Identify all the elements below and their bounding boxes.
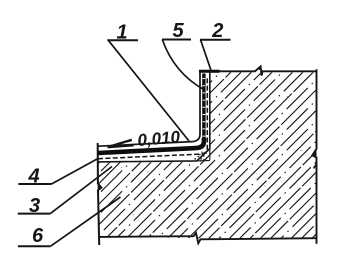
concrete surface: floor top line, fillet chamfer, wall face xyxy=(98,72,210,162)
right edge with break mark xyxy=(312,69,316,244)
membrane rail2 (thick main membrane) xyxy=(98,138,204,153)
scan speckles xyxy=(106,96,302,215)
leader line 1 (to protective layer at corner) xyxy=(108,40,189,141)
small tick on right edge xyxy=(314,164,317,169)
leader line 3 (to concrete slab) xyxy=(50,167,112,214)
concrete corner legs under fillet xyxy=(197,149,210,161)
membrane rail3 (dashed first ply) xyxy=(98,76,207,159)
membrane rail1 (outer protection line) xyxy=(98,73,200,147)
left floor edge with break mark xyxy=(98,143,102,245)
leader line 5 (to wall membrane) xyxy=(162,40,204,91)
top edge break spike fill xyxy=(259,66,263,70)
svg-text:0,010: 0,010 xyxy=(137,127,182,150)
leader line 2 (to top of wall membrane) xyxy=(201,40,212,72)
slope mark xyxy=(108,140,134,147)
callout 2 underline xyxy=(200,39,231,41)
membrane rail2 vertical run on wall xyxy=(202,74,205,141)
bottom edge with break mark xyxy=(99,233,316,243)
callout 3 underline xyxy=(18,213,51,215)
wall top edge with break mark xyxy=(200,66,317,75)
concrete hatch (alternating solid / dash-dot 45deg lines) xyxy=(14,60,352,248)
left edge break spike fill xyxy=(98,184,102,190)
leader line 6 (to base/foundation) xyxy=(51,197,121,246)
fillet stipple dots xyxy=(192,150,208,161)
svg-text:6: 6 xyxy=(32,225,44,247)
callout 4 underline xyxy=(18,183,51,185)
callout 1 underline xyxy=(107,39,138,41)
leader line 4 (to floor membrane edge) xyxy=(52,159,99,185)
right edge break spike fill xyxy=(312,149,317,158)
cap line on wall top xyxy=(199,70,220,73)
callout 6 underline xyxy=(18,245,51,247)
white ticks across thick wall membrane xyxy=(203,78,206,138)
callout 5 underline xyxy=(162,39,191,41)
